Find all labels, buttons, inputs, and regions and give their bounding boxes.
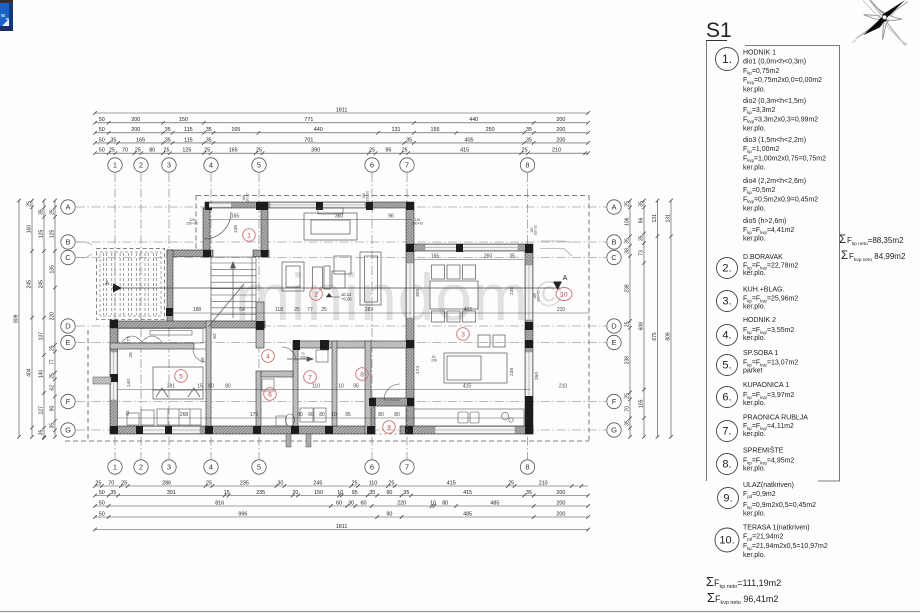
svg-text:210: 210 (559, 383, 568, 389)
svg-text:D.BORAVAK: D.BORAVAK (743, 254, 783, 261)
svg-text:4.: 4. (722, 330, 731, 342)
tv unit (360, 252, 381, 305)
svg-text:96: 96 (388, 213, 394, 219)
svg-text:25: 25 (49, 209, 55, 215)
wall stair lower right (256, 302, 264, 348)
svg-text:10: 10 (338, 383, 344, 389)
grid bubble 1 bottom (108, 460, 122, 474)
grid elbow C left (76, 254, 92, 258)
bottom dim chain 5 (93, 528, 590, 532)
svg-text:268: 268 (180, 412, 189, 418)
svg-text:238: 238 (509, 287, 515, 295)
svg-text:131: 131 (392, 127, 401, 133)
svg-text:35: 35 (403, 490, 409, 496)
svg-text:260: 260 (484, 253, 493, 259)
svg-text:35: 35 (526, 137, 532, 143)
svg-text:25: 25 (95, 480, 101, 486)
svg-text:60: 60 (361, 500, 367, 506)
bottom dim chain 1 (93, 484, 588, 488)
grid column line 7 (406, 173, 408, 459)
svg-text:Fkvp=1,00m2x0,75=0,75m2: Fkvp=1,00m2x0,75=0,75m2 (743, 155, 826, 163)
svg-text:210: 210 (557, 307, 566, 313)
svg-text:35: 35 (38, 209, 44, 215)
svg-text:230-20: 230-20 (246, 193, 250, 204)
svg-text:25: 25 (26, 201, 32, 207)
svg-text:25: 25 (402, 148, 408, 154)
svg-text:608: 608 (638, 322, 644, 331)
sofa living room (304, 213, 357, 240)
svg-text:25: 25 (204, 148, 210, 154)
grid elbow B right (540, 241, 572, 243)
svg-text:35: 35 (110, 137, 116, 143)
svg-text:230+20: 230+20 (537, 290, 541, 302)
svg-text:165: 165 (431, 253, 440, 259)
left dim chain 2 (30, 199, 34, 439)
top dim chain 4 (93, 141, 590, 145)
svg-text:230+20: 230+20 (412, 222, 424, 226)
wall interior bath top (261, 371, 293, 377)
svg-text:KUPAONICA 1: KUPAONICA 1 (743, 382, 789, 389)
svg-text:35: 35 (624, 420, 630, 426)
svg-text:SPREMIŠTE: SPREMIŠTE (743, 446, 784, 455)
svg-text:ker.plo.: ker.plo. (743, 165, 766, 172)
svg-text:140: 140 (126, 379, 132, 387)
room number 1 (243, 229, 256, 242)
svg-text:73: 73 (638, 250, 644, 256)
grid bubble 4 top (204, 158, 218, 172)
svg-text:125: 125 (38, 230, 44, 239)
svg-text:F: F (66, 397, 71, 406)
svg-text:80: 80 (297, 412, 303, 418)
svg-text:5: 5 (179, 373, 183, 380)
svg-text:90: 90 (386, 490, 392, 496)
legend entry 1 HODNIK 1 (716, 48, 827, 243)
svg-text:60: 60 (308, 412, 314, 418)
svg-text:Fkvp=3,3m2x0,3=0,99m2: Fkvp=3,3m2x0,3=0,99m2 (743, 116, 818, 124)
svg-text:160: 160 (26, 225, 32, 234)
svg-text:77: 77 (49, 359, 55, 365)
svg-text:D: D (611, 322, 617, 331)
svg-text:1: 1 (113, 161, 117, 170)
grid bubble C right (607, 250, 621, 264)
grid bubble 6 bottom (365, 460, 379, 474)
svg-text:Fkp=Fkvp=25,96m2: Fkp=Fkvp=25,96m2 (743, 296, 798, 304)
svg-text:10: 10 (331, 412, 337, 418)
entry steps below wall (286, 434, 311, 447)
svg-text:286: 286 (162, 480, 171, 486)
closet strip bedroom (118, 329, 203, 344)
svg-text:95: 95 (345, 412, 351, 418)
svg-text:415: 415 (463, 490, 472, 496)
wall entry porch top (369, 398, 414, 406)
wall bottom main (110, 426, 375, 434)
deck plank lines (104, 253, 157, 315)
side tables (313, 266, 331, 289)
legend sum bottom 1 (706, 574, 781, 590)
grid bubble 6 top (365, 158, 379, 172)
svg-text:283: 283 (365, 307, 374, 313)
grid bubble 8 bottom (520, 460, 534, 474)
wall interior 7-8 vertical (332, 341, 337, 426)
bottom dim chain 2 (93, 494, 590, 498)
svg-text:260: 260 (534, 372, 540, 380)
svg-text:131: 131 (665, 214, 671, 223)
wall top living (205, 202, 414, 208)
svg-text:200: 200 (556, 490, 565, 496)
svg-text:35: 35 (165, 137, 171, 143)
svg-text:206: 206 (431, 359, 437, 363)
grid bubble 2 top (134, 158, 148, 172)
svg-text:Fkp=0,9m2x0,5=0,45m2: Fkp=0,9m2x0,5=0,45m2 (743, 502, 816, 510)
inner dim line living top (208, 219, 412, 221)
svg-text:701: 701 (304, 137, 313, 143)
svg-text:6.: 6. (722, 392, 731, 404)
coffee tables (332, 256, 351, 288)
wall bedroom closet bottom (110, 343, 194, 349)
rotated inner dims (125, 225, 540, 416)
grid row line F (76, 401, 606, 403)
svg-text:25: 25 (352, 480, 358, 486)
svg-text:35: 35 (406, 137, 412, 143)
legend entry 4 HODNIK 2 (717, 317, 795, 346)
svg-text:parket: parket (743, 368, 763, 375)
svg-text:309: 309 (415, 289, 421, 297)
grid bubble B left (61, 235, 75, 249)
grid bubble 1 top (108, 158, 122, 172)
svg-text:35: 35 (509, 253, 515, 259)
room number 2 (310, 288, 323, 301)
window bottom kitchen (435, 427, 515, 434)
svg-text:Σ: Σ (841, 249, 848, 262)
svg-text:230+20: 230+20 (186, 222, 198, 226)
svg-text:250: 250 (486, 127, 495, 133)
svg-text:Σ: Σ (707, 590, 715, 605)
shelf top wall (318, 208, 343, 214)
svg-text:25: 25 (49, 373, 55, 379)
svg-text:50: 50 (99, 500, 105, 506)
svg-text:2: 2 (139, 161, 143, 170)
svg-text:5.: 5. (722, 360, 731, 372)
svg-text:25: 25 (256, 148, 262, 154)
svg-text:80: 80 (149, 148, 155, 154)
legend entry 9 ULAZ (718, 482, 817, 518)
wall hall bottom right (253, 250, 269, 257)
legend entry 3 KUH.+BLAG. (717, 287, 799, 312)
svg-text:115: 115 (184, 137, 193, 143)
svg-text:238: 238 (624, 284, 630, 293)
svg-text:A: A (611, 203, 616, 212)
svg-text:35: 35 (49, 423, 55, 429)
svg-text:415: 415 (464, 307, 473, 313)
legend entry 8 SPREMIŠTE (717, 446, 795, 475)
front door opening in top wall (209, 203, 231, 208)
grid row line C (76, 257, 606, 259)
wall hall bottom left (167, 250, 213, 257)
svg-text:96: 96 (638, 217, 644, 223)
room number 3 (457, 328, 470, 341)
wall kitchen left (406, 251, 414, 434)
grid bubble 7 bottom (400, 460, 414, 474)
svg-text:E: E (65, 338, 70, 347)
grid bubble D right (607, 319, 621, 333)
grid row line G (76, 429, 606, 431)
grid column line 5 (258, 173, 260, 459)
window kitchen top (425, 245, 518, 251)
window kitchen left wall (407, 263, 414, 318)
svg-text:210: 210 (539, 480, 548, 486)
grid bubble A left (61, 200, 75, 214)
svg-text:55: 55 (200, 357, 206, 363)
svg-text:5: 5 (257, 161, 261, 170)
svg-text:118: 118 (275, 307, 283, 313)
svg-text:TERASA 1(natkriven): TERASA 1(natkriven) (743, 525, 810, 532)
svg-text:25: 25 (49, 345, 55, 351)
grid bubble 2 bottom (134, 460, 148, 474)
wardrobe (157, 409, 201, 425)
grid bubble 3 bottom (162, 460, 176, 474)
svg-text:35: 35 (369, 490, 375, 496)
svg-text:1: 1 (113, 463, 117, 472)
grid column line 1 (114, 173, 116, 459)
svg-text:60: 60 (336, 500, 342, 506)
svg-text:30: 30 (277, 480, 283, 486)
svg-text:PRAONICA RUBLJA: PRAONICA RUBLJA (743, 415, 808, 422)
grid bubble A right (607, 200, 621, 214)
svg-text:4: 4 (266, 353, 270, 360)
svg-text:ker.plo.: ker.plo. (743, 335, 766, 342)
svg-text:6: 6 (370, 463, 374, 472)
svg-text:70: 70 (122, 148, 128, 154)
svg-text:25: 25 (624, 201, 630, 207)
svg-text:95: 95 (385, 148, 391, 154)
wall right exterior (525, 251, 533, 434)
svg-text:80: 80 (208, 383, 214, 389)
kitchen wall cabinets (478, 335, 505, 347)
svg-text:200: 200 (556, 117, 565, 123)
wall interior room7 top (293, 341, 414, 348)
grid column line 3 (168, 173, 170, 459)
top dim chain 3 (93, 131, 590, 135)
wall interior 8 right vertical (365, 341, 371, 434)
dining table (430, 265, 478, 322)
svg-text:391: 391 (167, 490, 176, 496)
svg-text:ker.plo.: ker.plo. (743, 270, 766, 277)
svg-text:230-20: 230-20 (366, 191, 370, 202)
svg-text:115: 115 (184, 127, 193, 133)
grid elbow B left (76, 242, 92, 245)
right dim chain 3 (656, 199, 660, 439)
legend entry 10 TERASA 1 (715, 525, 828, 560)
svg-text:D: D (65, 322, 71, 331)
svg-text:135: 135 (233, 225, 239, 233)
svg-text:50: 50 (99, 148, 105, 154)
legend sum right 2 (841, 249, 906, 263)
svg-text:80: 80 (225, 383, 231, 389)
room number 8 (356, 368, 369, 381)
svg-text:415: 415 (460, 148, 469, 154)
svg-text:105: 105 (638, 399, 644, 408)
svg-text:S1: S1 (706, 19, 732, 42)
svg-text:35: 35 (526, 490, 532, 496)
window top living (270, 203, 365, 208)
grid bubble 5 top (252, 158, 266, 172)
svg-text:77: 77 (126, 336, 132, 342)
svg-text:3: 3 (461, 331, 465, 338)
hall door arc (282, 347, 296, 361)
compass rose (851, 0, 908, 47)
svg-text:ker.plo.: ker.plo. (743, 552, 766, 559)
svg-text:245: 245 (26, 280, 32, 289)
svg-text:dio2 (0,3m<h<1,5m): dio2 (0,3m<h<1,5m) (743, 98, 806, 105)
svg-text:25: 25 (109, 148, 115, 154)
room number 7 (304, 371, 317, 384)
svg-text:F: F (612, 397, 617, 406)
svg-text:235: 235 (256, 490, 265, 496)
svg-text:15: 15 (197, 383, 203, 389)
kitchen island (444, 353, 507, 383)
left dim chain 3 (42, 199, 46, 440)
window bottom bedroom (140, 427, 200, 434)
svg-text:62: 62 (212, 333, 218, 339)
svg-text:415: 415 (447, 480, 456, 486)
inner dim line living mid (167, 312, 412, 314)
svg-text:165: 165 (231, 213, 240, 219)
legend entry 2 D.BORAVAK (717, 254, 799, 279)
svg-text:1811: 1811 (336, 524, 348, 530)
svg-text:95: 95 (352, 490, 358, 496)
svg-text:6: 6 (370, 161, 374, 170)
svg-text:110: 110 (312, 383, 320, 389)
svg-text:110: 110 (369, 480, 378, 486)
svg-text:20: 20 (292, 490, 298, 496)
svg-text:25: 25 (294, 307, 300, 313)
svg-text:E: E (611, 338, 616, 347)
kitchen counter (414, 409, 524, 426)
grid bubble B right (607, 235, 621, 249)
svg-text:35: 35 (165, 127, 171, 133)
right dim chain 4 (669, 199, 673, 439)
svg-text:245: 245 (38, 280, 44, 289)
svg-text:80: 80 (442, 500, 448, 506)
legend box (707, 41, 840, 481)
svg-text:175: 175 (250, 412, 259, 418)
svg-text:25: 25 (369, 148, 375, 154)
top dim chain 2 (93, 121, 590, 125)
svg-text:675: 675 (652, 332, 658, 341)
svg-text:80: 80 (378, 412, 384, 418)
svg-text:125: 125 (182, 148, 191, 154)
svg-text:dio3 (1,5m<h<2,2m): dio3 (1,5m<h<2,2m) (743, 137, 806, 144)
svg-text:10.: 10. (719, 535, 734, 547)
svg-text:35: 35 (526, 127, 532, 133)
svg-text:140: 140 (38, 370, 44, 379)
svg-text:ker.plo.: ker.plo. (743, 431, 766, 438)
svg-text:95: 95 (353, 383, 359, 389)
svg-text:200: 200 (556, 137, 565, 143)
grid bubble C left (61, 250, 75, 264)
svg-text:25: 25 (522, 148, 528, 154)
bottom dim chain 3 (93, 504, 590, 508)
svg-text:7.: 7. (722, 426, 731, 438)
grid bubble D left (61, 319, 75, 333)
svg-text:KUH.+BLAG.: KUH.+BLAG. (743, 287, 784, 294)
room number 5 (175, 370, 188, 383)
svg-text:15: 15 (224, 490, 230, 496)
stairs break line (208, 284, 244, 327)
svg-text:A: A (65, 203, 70, 212)
svg-text:7: 7 (405, 463, 409, 472)
svg-text:50: 50 (99, 117, 105, 123)
svg-text:ker.plo.: ker.plo. (743, 400, 766, 407)
svg-text:HODNIK 2: HODNIK 2 (743, 317, 776, 324)
svg-text:10: 10 (430, 500, 436, 506)
svg-text:391: 391 (167, 383, 176, 389)
grid column line 2 (140, 173, 142, 459)
svg-text:25: 25 (508, 480, 514, 486)
svg-text:771: 771 (304, 117, 313, 123)
svg-text:ker.plo.: ker.plo. (743, 511, 766, 518)
svg-text:150: 150 (179, 117, 188, 123)
svg-text:30: 30 (348, 500, 354, 506)
svg-text:dio4 (2,2m<h<2,6m): dio4 (2,2m<h<2,6m) (743, 178, 806, 185)
grid row line B (76, 241, 606, 243)
svg-text:155: 155 (431, 127, 440, 133)
svg-text:35: 35 (38, 429, 44, 435)
svg-text:1.: 1. (722, 52, 732, 66)
svg-text:C: C (611, 253, 617, 262)
column blocks (110, 202, 533, 434)
wall left lower (110, 320, 118, 434)
right dim chain 1 (628, 199, 632, 439)
svg-text:25: 25 (388, 480, 394, 486)
room number 6 (264, 388, 277, 401)
room number 4 (262, 350, 275, 363)
svg-text:8: 8 (525, 463, 529, 472)
svg-text:816: 816 (215, 500, 224, 506)
left dim chain outer (17, 199, 21, 439)
section marker A left (105, 281, 122, 293)
grid bubble F left (61, 394, 75, 408)
svg-text:25: 25 (206, 480, 212, 486)
grid bubble G left (61, 423, 75, 437)
svg-text:G: G (611, 426, 617, 435)
grid column line 4 (210, 173, 212, 459)
svg-text:70: 70 (624, 406, 630, 412)
left dim chain 4 (53, 199, 57, 439)
svg-text:137: 137 (38, 332, 44, 341)
svg-text:485: 485 (490, 500, 499, 506)
wall room5 top (110, 321, 265, 328)
legend sum right 1 (839, 233, 904, 247)
svg-text:90: 90 (386, 511, 392, 517)
wall kitchen top (406, 244, 533, 251)
grid bubble 4 bottom (204, 460, 218, 474)
svg-text:9: 9 (387, 424, 391, 431)
inner dim line kitchen top (414, 259, 524, 261)
svg-text:38: 38 (624, 248, 630, 254)
svg-text:ULAZ(natkriven): ULAZ(natkriven) (743, 482, 794, 489)
wall interior bath left vertical (256, 371, 261, 426)
svg-text:A: A (105, 281, 109, 287)
svg-text:220: 220 (397, 500, 406, 506)
svg-text:5: 5 (257, 463, 261, 472)
svg-text:25: 25 (624, 321, 630, 327)
svg-text:50: 50 (99, 511, 105, 517)
svg-text:25: 25 (164, 148, 170, 154)
window right wall lower (526, 352, 533, 398)
roof overhang dashed outline (65, 196, 589, 442)
svg-text:35: 35 (624, 238, 630, 244)
